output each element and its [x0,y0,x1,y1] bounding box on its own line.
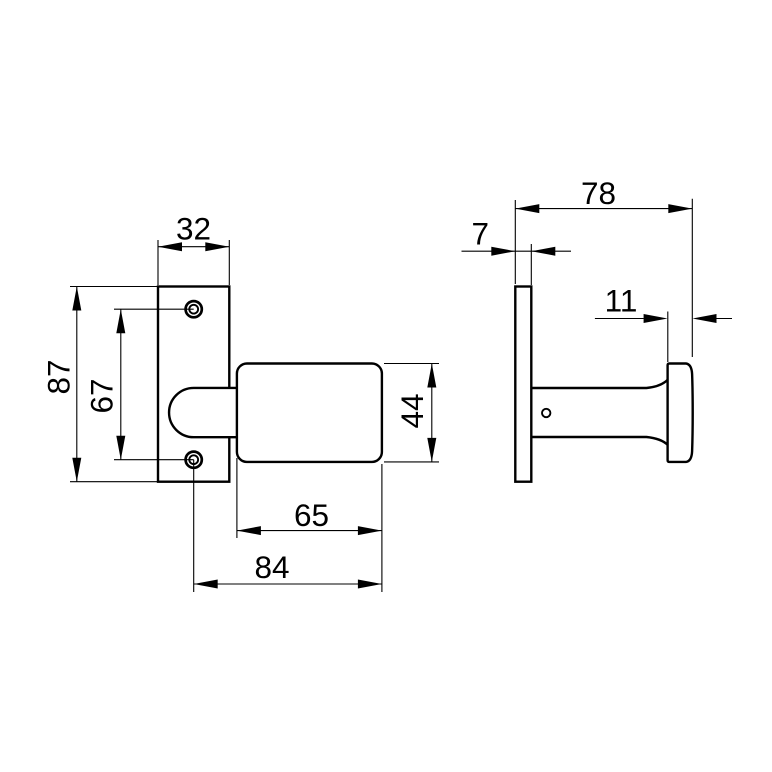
knob head side view [668,364,693,462]
dimension 11 [595,283,732,363]
knob front view [237,364,382,462]
mounting plate front view [158,287,229,482]
svg-text:84: 84 [254,549,289,585]
dimension 65 [237,458,382,592]
svg-text:32: 32 [176,211,211,247]
stem side view top edge [531,380,667,388]
screw hole top [186,301,202,317]
stem side view bottom edge [531,437,667,445]
dimension 67 [83,309,193,460]
mounting plate side view [515,287,531,482]
screw hole bottom [186,452,202,468]
svg-text:11: 11 [605,283,638,319]
svg-text:65: 65 [294,497,329,533]
dimension 78 [515,175,692,357]
dimension 87 [41,287,158,482]
dimension 44 [384,364,439,462]
svg-text:87: 87 [41,359,77,394]
svg-text:44: 44 [394,393,430,428]
svg-text:78: 78 [581,175,616,211]
dimension 7 [462,216,572,286]
dimension 84 [194,460,382,592]
stem front view [169,388,238,437]
svg-text:67: 67 [83,378,119,413]
dimension 32 [158,211,229,286]
svg-text:7: 7 [472,216,490,252]
stem hole side view [542,409,550,417]
